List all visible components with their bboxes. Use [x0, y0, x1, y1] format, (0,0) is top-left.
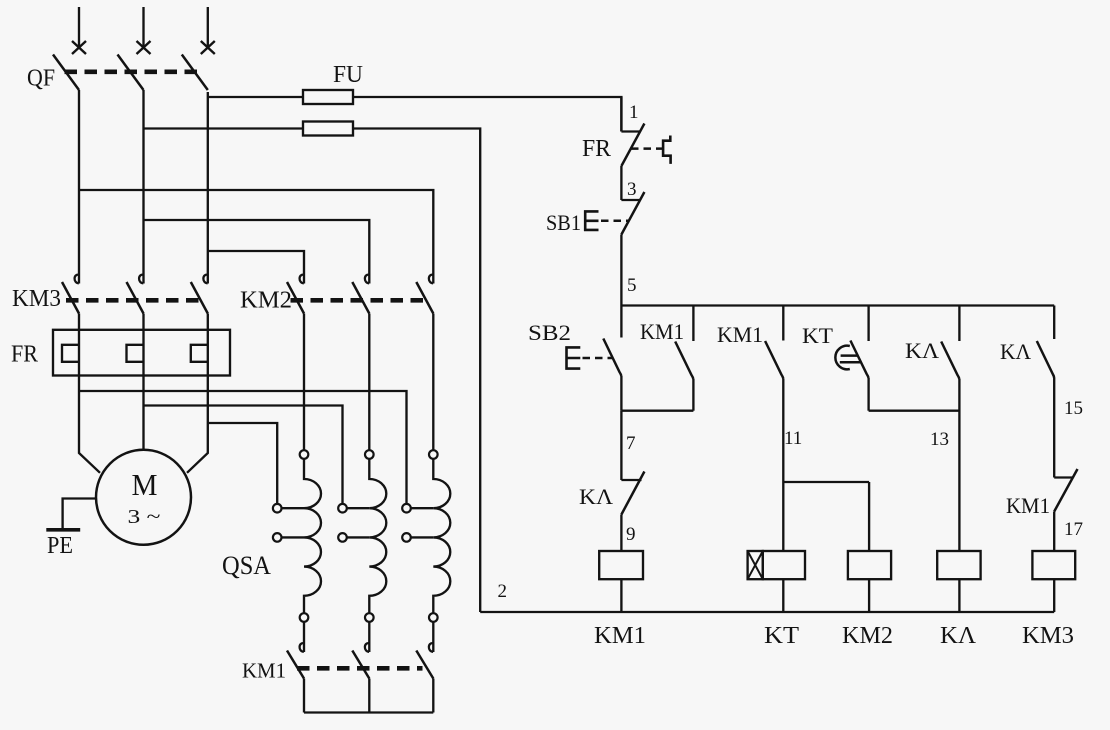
QSA coil3 tap wire lower: [411, 536, 434, 538]
svg-text:KΛ: KΛ: [940, 623, 977, 649]
KT delayed NO contact blade: [850, 341, 868, 379]
FR heater element 2: [127, 345, 144, 362]
svg-text:PE: PE: [47, 533, 73, 559]
svg-text:FR: FR: [11, 342, 38, 368]
junction wire node 13: [869, 410, 960, 412]
coil KA wire to rail 2: [958, 579, 960, 612]
wire crossover L2 to KM2 pole2: [144, 220, 370, 284]
coil KT X-box cross: [748, 551, 763, 579]
FR NC contact blade: [621, 124, 644, 167]
KM2 contact3 blade: [416, 282, 433, 314]
coil KM2: [848, 551, 891, 579]
svg-text:SB1: SB1: [546, 210, 581, 235]
KT delay symbol chord upper: [841, 354, 859, 357]
KM1 contact1 blade: [287, 651, 304, 679]
svg-text:SB2: SB2: [528, 320, 571, 345]
QSA coil1 winding: [304, 459, 321, 613]
coil KM3 wire to rail 2: [1053, 579, 1055, 612]
supply L1 X mark: [72, 41, 86, 54]
KM1 NC interlock contact stub: [1054, 476, 1073, 478]
QSA coil2 tap wire lower: [347, 536, 370, 538]
svg-text:17: 17: [1064, 519, 1083, 540]
wire QSA coil1 to KM1 contact1: [303, 622, 305, 652]
KM1 NO contact branch wire from rail: [782, 306, 784, 341]
control bottom rail 2 wire: [480, 611, 1054, 613]
SB1 NC contact blade: [621, 192, 644, 235]
KM3 contact2 blade: [127, 282, 144, 314]
QSA coil2 top terminal circle: [365, 450, 374, 459]
coil KA: [937, 551, 980, 579]
wire crossover L3 to KM2 pole1: [208, 251, 304, 284]
svg-text:FR: FR: [582, 136, 611, 162]
KM1 NC interlock blade: [1054, 469, 1077, 512]
supply line L3 terminal: [207, 7, 209, 48]
contactor KM3 main contact 1 hook: [75, 275, 80, 284]
KT contact wire down: [867, 378, 869, 411]
svg-text:KM2: KM2: [842, 623, 893, 649]
wire phase3 KM3 to motor: [187, 314, 208, 473]
supply line L1 terminal: [78, 7, 80, 48]
KM2 contact1 blade: [287, 282, 304, 314]
KA contact wire down to coil: [958, 379, 960, 551]
QSA coil2 winding: [369, 459, 386, 613]
KT delay symbol chord lower: [840, 361, 862, 364]
svg-text:KM1: KM1: [594, 623, 646, 649]
wire FU2 to control node 2 rail: [353, 129, 480, 613]
KM1 contact2 blade: [352, 651, 369, 679]
node 3 wire: [620, 166, 622, 200]
svg-text:KM1: KM1: [242, 659, 286, 683]
QSA coil1 top terminal circle: [300, 450, 309, 459]
svg-text:KM3: KM3: [12, 286, 61, 312]
svg-text:KM1: KM1: [717, 322, 763, 347]
svg-text:7: 7: [626, 433, 636, 454]
ground bar PE: [46, 528, 80, 532]
KM2 contact2 blade: [352, 282, 369, 314]
QSA coil1 tap terminal lower: [273, 533, 282, 542]
QSA coil1 tap wire upper: [282, 507, 305, 509]
svg-text:KM1: KM1: [640, 319, 684, 344]
motor M circle: [96, 450, 191, 545]
FR thermal element symbol: [663, 136, 671, 164]
stop button SB1 NC contact stub: [621, 199, 640, 201]
QSA coil2 tap terminal upper: [338, 504, 347, 513]
junction wire node 7: [621, 410, 693, 412]
wire KM2 contact3 to QSA coil3: [432, 314, 434, 451]
KM1 contact1 wire down: [303, 679, 305, 713]
node 17 wire: [1053, 512, 1055, 552]
wire QF pole2 down: [142, 90, 144, 284]
fuse FU2 body: [303, 122, 353, 136]
FR heater element 1: [62, 345, 79, 362]
svg-text:KΛ: KΛ: [579, 484, 613, 509]
wire tap C phase3 to QSA coil1: [208, 423, 277, 504]
coil KM3: [1032, 551, 1075, 579]
svg-text:M: M: [132, 467, 158, 502]
KM2 contact2 hook: [365, 275, 370, 284]
node 5 wire: [620, 235, 622, 306]
node 9 wire: [620, 515, 622, 552]
SB2 actuator link dashed: [583, 357, 613, 360]
supply L2 X mark: [137, 41, 151, 54]
QSA coil3 bottom terminal circle: [429, 613, 438, 622]
KM1 contact2 wire down: [368, 679, 370, 713]
SB2 wire down to node 7: [620, 376, 622, 411]
svg-text:13: 13: [930, 429, 949, 450]
start button SB2 wire from rail: [620, 306, 622, 338]
KM1 self-hold wire down: [692, 379, 694, 411]
coil KT wire to rail 2: [782, 579, 784, 612]
KM1 NO contact blade (KT branch): [765, 341, 783, 379]
QSA coil3 tap wire upper: [411, 507, 434, 509]
svg-text:KT: KT: [764, 623, 799, 649]
coil KM2 wire to rail 2: [868, 579, 870, 612]
supply line L2 terminal: [142, 7, 144, 48]
svg-text:KM2: KM2: [240, 288, 292, 314]
QSA coil2 tap wire upper: [347, 507, 370, 509]
FR trip linkage dashed: [631, 147, 663, 150]
KM3 contact3 blade: [191, 282, 208, 314]
KM1 contact3 blade: [416, 651, 433, 679]
KM2 linkage dashed: [291, 298, 425, 303]
SB1 actuator link dashed: [601, 220, 628, 223]
KM2 contact3 hook: [429, 275, 434, 284]
wire phase1 KM3 to motor: [79, 314, 100, 473]
svg-text:5: 5: [627, 275, 637, 296]
coil KM1: [599, 551, 643, 579]
wire crossover L1 to KM2 pole3: [79, 190, 433, 284]
QSA coil3 tap terminal lower: [402, 533, 411, 542]
SB2 push actuator E: [565, 346, 580, 370]
svg-text:KM1: KM1: [1006, 493, 1050, 518]
control top rail wire: [621, 304, 1054, 306]
SB2 NO contact blade: [603, 339, 621, 377]
svg-text:9: 9: [626, 524, 636, 545]
KA NO contact blade branch5: [1037, 341, 1054, 378]
KM1 star contact 3 hook: [429, 643, 434, 652]
KM1 self-hold NO contact blade: [675, 342, 693, 380]
svg-text:QSA: QSA: [222, 551, 271, 580]
svg-text:FU: FU: [333, 62, 363, 88]
svg-text:KT: KT: [802, 323, 834, 348]
svg-text:KΛ: KΛ: [1000, 339, 1031, 364]
contactor KM1 star contact 1 hook: [300, 643, 305, 652]
QSA coil3 top terminal circle: [429, 450, 438, 459]
KM1 contact3 wire down: [432, 679, 434, 713]
KM2 coil feed wire: [868, 482, 870, 551]
time relay KT delayed contact wire from rail: [867, 306, 869, 342]
rail corner to KA contact branch 5: [1053, 306, 1055, 340]
svg-text:2: 2: [498, 581, 508, 602]
KT delay symbol arc: [835, 346, 849, 370]
PE wire: [63, 499, 97, 530]
svg-text:3 ~: 3 ~: [128, 506, 161, 528]
node 11 wire down: [782, 379, 784, 552]
KA NO contact blade: [941, 342, 959, 380]
QSA coil1 tap terminal upper: [273, 504, 282, 513]
svg-text:3: 3: [627, 179, 637, 200]
SB1 push actuator E: [584, 210, 599, 231]
KM1 star point bus wire: [304, 711, 433, 713]
wire KM2 contact1 to QSA coil1: [303, 314, 305, 451]
FR heater element 3: [191, 345, 208, 362]
wire QSA coil2 to KM1 contact2: [368, 622, 370, 652]
wire to fuse FU lower: [144, 127, 304, 129]
wire KM2 contact2 to QSA coil2: [368, 314, 370, 451]
KM3 linkage dashed: [66, 298, 200, 303]
contactor KM2 main contact 1 hook: [300, 275, 305, 284]
node 7 wire down: [620, 411, 622, 480]
relay KA NO contact wire from rail: [958, 306, 960, 342]
KM3 contact3 hook: [203, 275, 208, 284]
wire phase2 KM3 to motor: [142, 314, 144, 450]
coil KT X-box: [748, 551, 763, 579]
svg-text:11: 11: [784, 428, 802, 449]
wire QF pole3 down: [207, 92, 209, 284]
fuse FU1 body: [303, 90, 353, 104]
QSA coil3 tap terminal upper: [402, 504, 411, 513]
coil KT body: [763, 551, 805, 579]
svg-text:15: 15: [1064, 398, 1083, 419]
KM1 star contact 2 hook: [365, 643, 370, 652]
QSA coil1 tap wire lower: [282, 536, 305, 538]
thermal relay FR heater box: [53, 330, 230, 376]
wire QSA coil3 to KM1 contact3: [432, 622, 434, 652]
supply L3 X mark: [201, 41, 215, 54]
breaker QF pole 1 blade: [53, 55, 79, 91]
KM3 contact1 blade: [62, 282, 79, 314]
wire QF pole1 down: [78, 90, 80, 284]
wire FU1 to control node 1: [353, 97, 621, 132]
QSA coil1 bottom terminal circle: [300, 613, 309, 622]
svg-text:KM3: KM3: [1022, 623, 1074, 649]
breaker QF pole 3 blade: [182, 55, 208, 91]
QSA coil2 tap terminal lower: [338, 533, 347, 542]
junction wire to KM2 coil: [783, 481, 869, 483]
svg-text:QF: QF: [27, 66, 55, 92]
KM3 contact2 hook: [139, 275, 144, 284]
wire to fuse FU upper: [208, 96, 303, 98]
node 1 wire: [620, 97, 622, 132]
wire tap A phase1 to QSA coil3: [79, 391, 407, 504]
KM1 linkage dashed: [297, 666, 423, 671]
QSA coil2 bottom terminal circle: [365, 613, 374, 622]
KA NC contact blade: [621, 472, 644, 515]
thermal relay FR NC contact stub: [621, 130, 640, 132]
QSA coil3 winding: [433, 459, 450, 613]
breaker QF pole 2 blade: [118, 55, 144, 91]
coil KM1 wire to rail 2: [620, 579, 622, 612]
KM1 self-hold contact wire from rail: [692, 306, 694, 342]
QF mechanical linkage dashed: [65, 70, 198, 75]
wire tap B phase2 to QSA coil2: [144, 406, 343, 504]
relay KA NC contact stub: [621, 479, 641, 481]
svg-text:1: 1: [629, 102, 639, 123]
svg-text:KΛ: KΛ: [905, 338, 939, 363]
node 15 wire: [1053, 378, 1055, 478]
